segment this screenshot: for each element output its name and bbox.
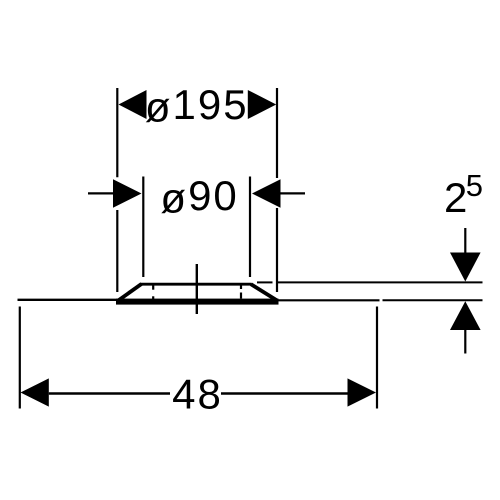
plate profile: right chamfer edge [251, 284, 278, 301]
svg-text:2: 2 [444, 174, 467, 221]
plate profile: top edge of raised centre [140, 283, 252, 286]
dimension ø195: left extension line (lower segment) [116, 210, 118, 292]
hidden edge left (dashed), upper dash [152, 285, 154, 290]
svg-text:ø195: ø195 [145, 81, 249, 131]
hidden edge right (dashed), upper dash [240, 285, 242, 289]
dimension 48: right extension line [376, 307, 378, 409]
dimension ø195: left arrowhead [119, 90, 147, 119]
dimension 48: dimension line right segment [221, 392, 348, 394]
dimension 48: right arrowhead [348, 378, 377, 406]
dimension ø90: right extension line [249, 177, 251, 278]
svg-text:5: 5 [466, 168, 483, 203]
hidden edge right (dashed), lower dash [240, 293, 242, 299]
thickness 2.5: upper arrowhead (points down) [450, 253, 481, 282]
thickness 2.5: lower arrowhead (points up) [450, 301, 481, 330]
thickness 2.5: top surface extension line (right of gap) [278, 281, 483, 283]
plate profile: left top surface line [18, 299, 120, 301]
thickness 2.5: top surface extension line (left of gap) [257, 281, 273, 283]
thickness 2.5: lower dimension line [464, 330, 466, 354]
dimension ø195: right extension line (upper segment) [276, 88, 278, 178]
svg-text:ø90: ø90 [160, 172, 238, 222]
plate profile: right top surface line [277, 299, 380, 301]
plate profile: thick bottom band of raised centre [116, 299, 279, 305]
thickness 2.5: bottom surface extension line [383, 299, 483, 301]
dimension 48: dimension line left segment [49, 392, 170, 394]
dimension 48: left arrowhead [21, 378, 49, 406]
dimension ø195: left extension line (upper segment) [116, 88, 118, 177]
hidden edge left (dashed), lower dash [152, 296, 154, 299]
dimension ø195: right arrowhead [248, 90, 276, 119]
dimension ø90: left leader line [88, 192, 113, 194]
dimension ø195: right extension line (lower segment) [276, 208, 278, 292]
dimension ø90: right leader line [281, 192, 306, 194]
dimension ø90: left arrowhead [113, 179, 142, 208]
dimension 48: left extension line [19, 307, 21, 409]
dimension ø90: right arrowhead [252, 179, 281, 208]
svg-text:48: 48 [172, 371, 223, 418]
dimension ø90: left extension line [142, 177, 144, 278]
centre axis line [196, 264, 198, 314]
plate profile: left chamfer edge [118, 284, 142, 301]
thickness 2.5: upper dimension line [464, 228, 466, 253]
